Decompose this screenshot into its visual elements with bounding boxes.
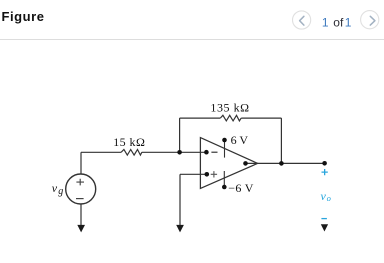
svg-text:15 kΩ: 15 kΩ xyxy=(113,135,145,149)
wire: source bottom lead to ground arrow xyxy=(80,204,82,226)
wire: positive supply lead xyxy=(224,140,226,158)
source minus sign xyxy=(76,198,84,200)
svg-text:1: 1 xyxy=(322,16,329,30)
next button circle xyxy=(361,11,379,29)
output reference arrow xyxy=(321,224,328,231)
ground arrow under non-inverting input xyxy=(176,225,184,233)
op-amp minus sign xyxy=(211,151,217,153)
output plus label (cyan) xyxy=(322,169,328,175)
separator line xyxy=(0,39,384,40)
ground arrow under source xyxy=(77,225,85,233)
voltage source vg circle xyxy=(66,174,96,204)
wire: non-inverting input horizontal xyxy=(180,173,207,175)
wire: negative supply lead xyxy=(223,171,225,187)
wire: input from source top to inverting input xyxy=(81,151,207,153)
wire: feedback right vertical xyxy=(280,118,282,163)
next chevron xyxy=(370,16,375,25)
svg-text:o: o xyxy=(327,193,331,203)
node: output dot inside op-amp xyxy=(243,161,248,166)
source plus sign xyxy=(76,179,84,186)
wire: non-inverting vertical to ground arrow xyxy=(179,174,181,225)
svg-text:g: g xyxy=(58,186,63,197)
node: output terminal dot xyxy=(322,161,327,166)
wire: feedback left vertical xyxy=(179,118,181,152)
node: +6V supply dot xyxy=(222,138,227,143)
prev button circle xyxy=(293,11,311,29)
svg-text:6 V: 6 V xyxy=(231,133,249,147)
wire: source vertical top lead xyxy=(80,152,82,174)
svg-text:−6 V: −6 V xyxy=(228,181,253,195)
svg-text:1: 1 xyxy=(345,16,352,30)
svg-text:v: v xyxy=(52,181,58,195)
resistor 15 kOhm zigzag xyxy=(121,150,142,156)
op-amp plus sign xyxy=(211,171,217,177)
svg-text:135 kΩ: 135 kΩ xyxy=(210,100,249,114)
svg-text:v: v xyxy=(321,189,327,203)
node: junction dot feedback/input xyxy=(177,150,182,155)
svg-text:of: of xyxy=(333,16,344,30)
output minus label (cyan) xyxy=(321,218,327,220)
header title xyxy=(2,10,45,23)
prev chevron xyxy=(300,16,304,25)
resistor 135 kOhm zigzag xyxy=(220,115,241,121)
node: inverting input dot xyxy=(204,150,209,155)
node: -6V supply dot xyxy=(222,185,227,190)
wire: output from op-amp to terminal xyxy=(246,162,325,164)
op-amp U1 triangle xyxy=(200,138,257,189)
node: junction dot output/feedback xyxy=(279,161,284,166)
wire: feedback top horizontal xyxy=(180,117,282,119)
node: non-inverting input dot xyxy=(205,172,210,177)
